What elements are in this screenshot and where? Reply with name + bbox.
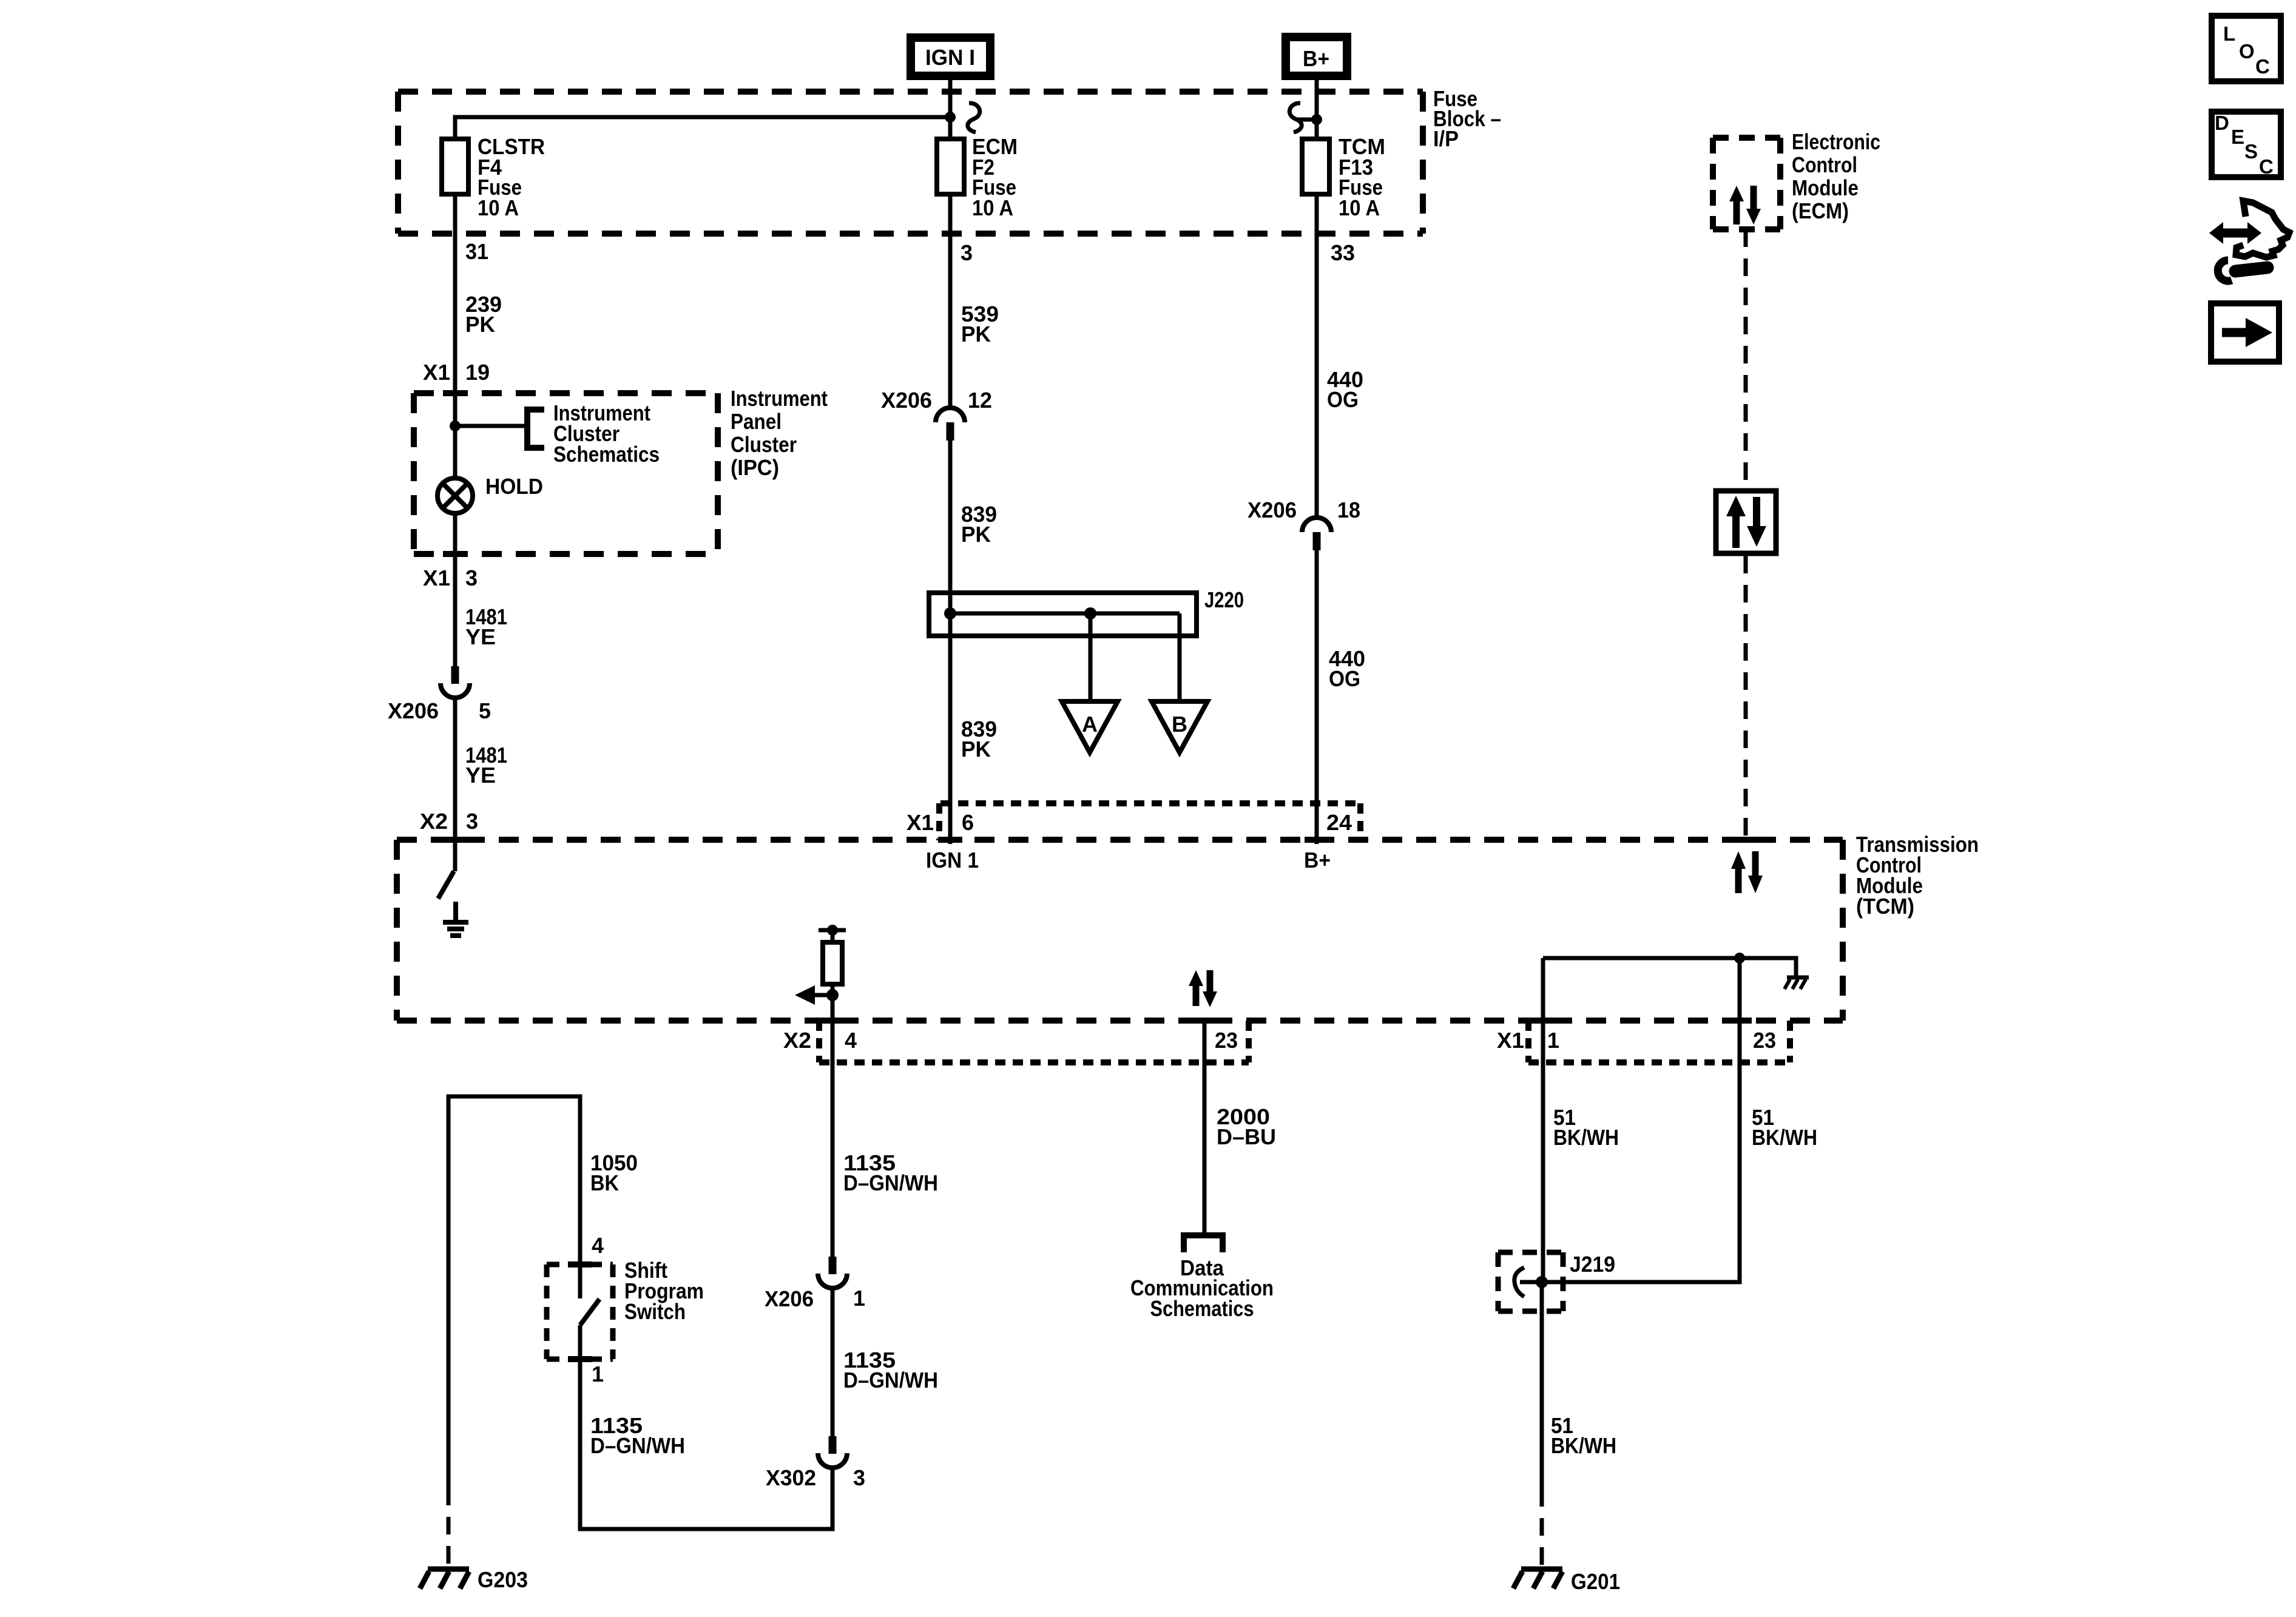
dashed wire to G203 [447,1488,451,1567]
svg-text:L: L [2223,22,2235,45]
svg-text:B+: B+ [1303,46,1329,71]
svg-text:(ECM): (ECM) [1792,198,1849,223]
junction node IPC branch [450,420,461,431]
svg-text:G201: G201 [1571,1569,1620,1594]
wire IPC top to HOLD [453,393,458,477]
svg-text:24: 24 [1326,810,1352,835]
svg-text:J219: J219 [1570,1252,1615,1277]
svg-text:Switch: Switch [624,1299,686,1324]
svg-text:(TCM): (TCM) [1856,894,1914,919]
svg-text:(IPC): (IPC) [731,455,779,480]
svg-text:BK/WH: BK/WH [1553,1125,1619,1150]
fuse TCM F13 10A [1302,134,1385,220]
arrow to left inside TCM [795,985,832,1005]
svg-text:HOLD: HOLD [485,474,543,499]
svg-text:19: 19 [465,360,490,385]
wire 1135 D-GN/WH middle [832,1287,938,1436]
data arrows above pin 23 [1189,970,1217,1007]
wire 1135 D-GN/WH upper [843,1150,938,1195]
label fuse block I/P [1433,86,1501,151]
wire resistor to junction [831,984,835,995]
label electronic control module [1792,129,1880,223]
svg-text:OG: OG [1329,666,1360,691]
label transmission control module [1856,832,1979,919]
svg-text:X2: X2 [783,1028,811,1053]
svg-text:OG: OG [1327,387,1359,412]
svg-text:PK: PK [961,737,991,761]
connector strip X2 bottom of TCM [783,1021,1249,1062]
icon arrow box [2211,303,2279,362]
svg-text:J220: J220 [1204,587,1244,612]
svg-text:1: 1 [592,1362,604,1386]
ground G203 [420,1567,528,1592]
svg-text:E: E [2231,126,2244,148]
indicator lamp HOLD [437,474,543,513]
wire switch lower contact [578,1325,582,1359]
pin label X2 3 [420,809,478,834]
svg-text:X2: X2 [420,809,448,834]
svg-text:X206: X206 [388,698,439,723]
svg-text:10 A: 10 A [972,195,1013,220]
svg-text:B: B [1172,712,1187,737]
svg-text:Cluster: Cluster [731,432,797,457]
svg-text:X206: X206 [765,1286,814,1311]
svg-text:G203: G203 [478,1567,528,1592]
connector X302 pin 3 [766,1436,865,1490]
power node IGN I [911,38,990,76]
svg-text:5: 5 [479,698,491,723]
pin label X1 19 [423,360,490,385]
wire 1481 YE lower [455,697,507,871]
shift program switch dashed box [547,1264,613,1359]
svg-text:6: 6 [962,810,974,835]
svg-text:Control: Control [1792,152,1857,177]
fuse CLSTR F4 10A [442,134,545,220]
resistor [823,942,842,984]
junction node B+ [1311,114,1322,125]
wire 539 PK [950,194,999,409]
wire 1481 YE upper [465,604,507,649]
switch blade inside TCM [438,871,454,899]
svg-text:Schematics: Schematics [1150,1296,1254,1321]
wire X302 to shift switch [580,1359,832,1529]
wire 839 PK upper [950,441,997,844]
data link box with arrows [1716,491,1776,553]
wire 839 PK lower [961,717,997,761]
svg-text:X206: X206 [881,388,932,413]
signal ground inside TCM [443,902,468,936]
svg-text:3: 3 [466,809,478,834]
dashed wire ECM lower [1744,556,1748,840]
svg-text:10 A: 10 A [1339,195,1380,220]
svg-text:Instrument: Instrument [731,386,828,411]
svg-text:IGN I: IGN I [925,45,975,70]
svg-text:1: 1 [1547,1028,1559,1053]
svg-text:IGN 1: IGN 1 [926,848,979,873]
svg-text:B+: B+ [1304,848,1331,873]
svg-text:O: O [2239,40,2255,62]
label data communication schematics [1130,1255,1274,1321]
wire TCM pin 23 down to J219 [1542,958,1740,1282]
connector X206 pin 12 [881,388,992,441]
wire TCM X1-1 down [1541,958,1545,1282]
ground G201 [1513,1569,1620,1594]
power node B+ [1286,37,1347,76]
chassis ground inside TCM [1784,977,1809,989]
svg-text:3: 3 [853,1465,865,1490]
junction node IGN I [945,112,956,123]
svg-text:Panel: Panel [731,409,782,434]
svg-text:X302: X302 [766,1465,816,1490]
wire 1135 D-GN/WH from switch [590,1413,685,1458]
TCM dashed box [397,840,1843,1021]
svg-text:X206: X206 [1248,498,1297,522]
svg-text:D–GN/WH: D–GN/WH [843,1368,938,1393]
dashed wire ECM upper [1744,229,1748,488]
splice pack J220 [929,587,1244,636]
resistor branch inside TCM [819,925,846,942]
svg-text:D–GN/WH: D–GN/WH [843,1170,938,1195]
svg-text:12: 12 [968,388,992,413]
svg-text:X1: X1 [423,360,450,385]
svg-text:BK/WH: BK/WH [1551,1433,1616,1458]
wire 51 BK/WH left label [1553,1105,1619,1150]
fuse block I/P dashed box [398,92,1423,234]
fuse ECM F2 10A [937,134,1018,220]
splice J219 [1498,1252,1615,1311]
svg-text:YE: YE [465,763,496,788]
wire to bracket [455,424,527,428]
wire X2-4 down [831,995,835,1257]
svg-text:31: 31 [465,239,488,264]
IPC dashed box [414,393,718,554]
ECM dashed box [1713,138,1780,229]
pin label X1 3 [423,565,478,590]
svg-text:18: 18 [1337,498,1360,522]
svg-text:D–BU: D–BU [1217,1124,1276,1149]
wire 51 BK/WH bottom [1542,1282,1616,1489]
svg-text:PK: PK [961,522,991,547]
TCM internal ground bus [1543,953,1796,977]
connector X206 pin 1 [765,1257,865,1311]
svg-text:3: 3 [961,240,973,265]
svg-text:Electronic: Electronic [1792,129,1880,154]
bracket instrument cluster schematics [524,407,544,451]
svg-text:4: 4 [592,1233,604,1258]
connector X206 pin 18 [1248,498,1360,550]
wire J220 to triangle B [1178,613,1182,704]
off-page bracket data communication [1184,1235,1223,1252]
wire 1050 BK ground loop [448,1096,638,1488]
svg-text:Module: Module [1792,175,1859,200]
svg-text:23: 23 [1215,1028,1238,1053]
wire IGN I feed [455,80,950,139]
wire 440 OG upper [1317,194,1363,519]
svg-text:BK: BK [590,1170,619,1195]
svg-text:PK: PK [465,312,495,337]
icon DESC box [2212,112,2281,178]
svg-text:1: 1 [853,1286,865,1311]
svg-text:X1: X1 [423,565,450,590]
icon hand with arrow and wrench [2209,201,2289,281]
svg-text:X1: X1 [907,810,934,835]
off-page triangle B [1152,701,1207,752]
svg-text:10 A: 10 A [478,195,519,220]
label shift program switch [624,1258,704,1324]
fuse clip IGN I [968,103,980,132]
data arrows at TCM edge [1731,851,1763,893]
svg-text:33: 33 [1331,240,1355,265]
dashed wire to G201 [1540,1489,1544,1567]
wire J220 to triangle A [1089,613,1093,704]
icon LOC box [2212,16,2281,81]
wire 440 OG lower [1317,550,1365,844]
svg-text:A: A [1082,712,1098,737]
svg-text:23: 23 [1753,1028,1776,1053]
svg-text:3: 3 [465,565,478,590]
label instrument panel cluster [731,386,828,480]
svg-text:I/P: I/P [1433,126,1459,151]
wire HOLD to X206-5 [453,515,458,666]
wire B+ feed [1297,80,1317,139]
svg-text:C: C [2255,55,2270,78]
shift switch blade [580,1299,599,1325]
svg-text:X1: X1 [1497,1028,1524,1053]
svg-text:PK: PK [961,322,991,346]
svg-text:YE: YE [465,624,496,649]
off-page triangle A [1062,701,1118,752]
fuse clip B+ [1289,103,1302,132]
data arrows inside ECM box [1729,186,1761,224]
svg-text:D–GN/WH: D–GN/WH [590,1433,685,1458]
connector strip X1 bottom of TCM [1497,1021,1790,1062]
connector strip X1 top of TCM [907,803,1360,840]
svg-text:S: S [2244,140,2258,163]
svg-text:BK/WH: BK/WH [1752,1125,1817,1150]
svg-text:4: 4 [845,1028,857,1053]
junction node resistor output [826,989,839,1001]
svg-text:C: C [2259,155,2274,178]
svg-text:Schematics: Schematics [553,442,660,467]
wire 2000 D-BU [1204,1021,1276,1235]
svg-text:D: D [2215,112,2229,134]
wire 239 PK [455,194,502,393]
wire 51 BK/WH right label [1752,1105,1817,1150]
label instrument cluster schematics [553,400,660,467]
connector X206 pin 5 [388,666,491,723]
